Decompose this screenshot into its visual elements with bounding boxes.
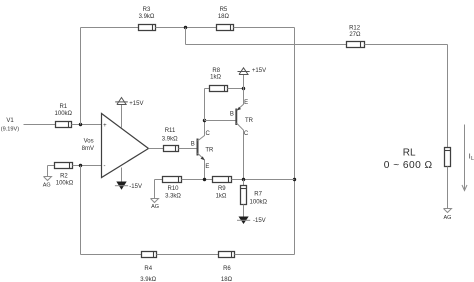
wire R8 to +15V node [228,88,244,90]
svg-text:-15V: -15V [129,184,142,190]
wire mid horizontal AG to R10 [155,179,163,181]
power +15V TR2 [238,68,267,89]
svg-text:1kΩ: 1kΩ [216,193,227,199]
wire op-amp output to R11 [149,148,164,150]
wire mid-right vertical [294,28,296,255]
wire RL to ground [447,167,449,209]
svg-text:R12: R12 [349,25,361,31]
svg-text:+15V: +15V [129,101,143,107]
wire load branch vertical down [447,45,449,148]
svg-text:0 ~ 600 Ω: 0 ~ 600 Ω [384,160,433,171]
resistor R4 [140,252,156,282]
svg-text:8mV: 8mV [82,146,94,152]
svg-text:+15V: +15V [252,68,266,74]
wire R5 to right corner [234,27,295,29]
svg-text:R5: R5 [220,7,228,13]
svg-text:3.9kΩ: 3.9kΩ [139,14,155,20]
wire R6 to bottom right corner [235,254,295,256]
svg-text:R11: R11 [165,128,176,134]
wire TR1 collector to TR2 base [205,120,236,122]
svg-text:AG: AG [444,215,452,221]
power -15V R7 [237,217,266,225]
svg-text:R3: R3 [143,7,151,13]
svg-text:B: B [230,111,234,117]
svg-text:TR: TR [245,118,254,124]
resistor R12 [347,25,365,47]
resistor R8 [210,68,228,91]
resistor R7 [241,180,268,206]
resistor R6 [219,252,235,282]
ground AG at R10 [151,180,160,211]
resistor R5 [217,7,234,31]
svg-text:C: C [206,131,211,137]
node TR2 collector / R7 junction [242,178,245,181]
svg-text:R7: R7 [254,191,262,197]
wire bottom segment to R4 [81,254,142,256]
svg-text:R4: R4 [144,266,152,272]
wire R7 to -15V [243,205,245,217]
current arrow IL [462,125,474,191]
svg-text:E: E [205,164,209,170]
svg-text:RL: RL [403,148,416,159]
wire V1 to R1 [24,124,56,126]
ground AG at R2 [43,166,52,189]
svg-text:100kΩ: 100kΩ [55,111,73,117]
wire feedback left vertical [80,28,82,125]
svg-text:-15V: -15V [253,218,266,224]
svg-text:R8: R8 [212,68,220,74]
node +in junction [79,123,82,126]
svg-text:100kΩ: 100kΩ [56,181,74,187]
node A junction [184,26,187,29]
wire R10 to R9 [182,179,213,181]
wire node A branch down [185,28,187,45]
resistor R11 [162,128,179,151]
svg-text:-: - [104,164,106,170]
svg-text:TR: TR [205,148,214,154]
power +15V op-amp [115,98,143,128]
resistor R3 [139,7,156,31]
wire R9 to mid-right vertical [232,179,295,181]
svg-text:+: + [103,123,107,129]
svg-text:R2: R2 [60,173,68,179]
source V1 label [1,118,19,132]
svg-text:3.9kΩ: 3.9kΩ [162,136,178,142]
svg-text:18Ω: 18Ω [218,14,230,20]
node -in junction [79,164,82,167]
svg-text:AG: AG [43,182,51,188]
svg-text:AG: AG [151,204,159,210]
wire inverting node down to bottom line [80,166,82,255]
svg-text:3.3kΩ: 3.3kΩ [165,193,181,199]
transistor TR1 [191,121,214,180]
svg-text:E: E [244,100,248,106]
node +15V junction [242,87,245,90]
svg-text:3.9kΩ: 3.9kΩ [140,277,156,282]
wire R11 to TR1 base [179,148,197,150]
svg-text:100kΩ: 100kΩ [250,200,268,206]
resistor R2 [55,163,74,187]
wire R1 to noninverting input [72,124,102,126]
svg-text:R9: R9 [218,186,226,192]
wire AG to R2 [48,165,55,167]
svg-text:(9.19V): (9.19V) [1,126,19,132]
wire branch to R12 [186,44,347,46]
node TR1 collector junction [203,119,206,122]
svg-text:R6: R6 [223,266,231,272]
svg-text:R1: R1 [59,104,67,110]
resistor R9 [213,177,232,200]
node TR1 emitter junction [203,178,206,181]
power -15V op-amp [115,168,142,191]
transistor TR2 [230,89,254,180]
resistor RL [384,148,451,172]
wire R8 left leg [204,89,206,121]
svg-text:Vos: Vos [84,139,94,145]
node mid-right junction [293,178,296,181]
resistor R1 [55,104,73,128]
wire R12 to load corner [365,44,448,46]
wire R4 to R6 [157,254,219,256]
svg-text:C: C [244,131,249,137]
ground AG load [444,209,452,222]
wire R2 to inverting input [73,165,102,167]
svg-text:B: B [191,141,195,147]
svg-text:1kΩ: 1kΩ [210,75,221,81]
resistor R10 [163,177,182,200]
svg-text:27Ω: 27Ω [349,32,361,38]
op-amp U1 [82,114,149,178]
svg-text:V1: V1 [6,118,14,124]
wire R3 to node A [156,27,217,29]
svg-text:18Ω: 18Ω [221,277,233,282]
wire top segment to R3 [81,27,139,29]
svg-text:R10: R10 [167,186,179,192]
